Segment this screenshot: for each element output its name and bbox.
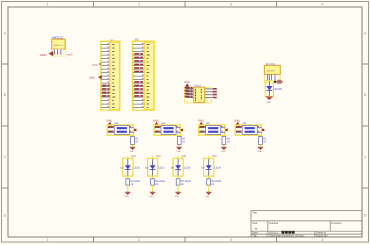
opto U6 left pin net labels <box>236 126 241 132</box>
LED D1 highlight box <box>265 81 273 97</box>
svg-text:GND: GND <box>177 150 182 153</box>
opto U4 body <box>161 126 176 135</box>
opto U6 pin number marks <box>241 126 260 132</box>
wire resistor R2 to ground <box>178 144 180 147</box>
opto U6 left pins <box>236 128 243 133</box>
wire resistor R5 to ground <box>127 185 129 192</box>
opto U4 left pin net labels <box>155 126 160 132</box>
wire resistor R6 to ground <box>152 185 154 192</box>
opto U3 pin number marks <box>113 126 132 132</box>
opto U5 right pins <box>221 128 225 133</box>
svg-text:D4: D4 <box>171 166 175 169</box>
resistor R7 <box>176 179 191 186</box>
switch K1 pins <box>268 74 275 81</box>
opto U5 left pin net labels <box>200 126 205 132</box>
opto U3 left pins <box>108 128 115 133</box>
driver U2 pins <box>186 89 212 98</box>
svg-text:3: 3 <box>230 3 232 7</box>
svg-text:GND: GND <box>40 53 46 57</box>
opto U4 pin number marks <box>159 126 178 132</box>
wire opto U6 to resistor <box>259 135 261 136</box>
net label at opto U5 output <box>226 129 228 131</box>
svg-text:4: 4 <box>322 3 324 7</box>
opto U4 right pins <box>176 128 180 133</box>
power port GND at opto U3 <box>106 119 112 124</box>
svg-text:VCC: VCC <box>92 64 98 67</box>
opto U4 left pins <box>155 128 162 133</box>
switch K1 pin field <box>266 74 277 80</box>
wire K1 to LED D1 <box>268 74 270 96</box>
svg-text:D2: D2 <box>120 166 124 169</box>
regulator U1 pin numbers <box>55 52 60 55</box>
svg-text:GND: GND <box>175 195 180 198</box>
power port GND at opto U6 <box>234 119 240 124</box>
svg-text:GND: GND <box>221 150 226 153</box>
switch K1 halo <box>264 74 280 83</box>
wire resistor R1 to ground <box>132 144 134 147</box>
svg-text:LED4: LED4 <box>214 166 221 169</box>
resistor R6 <box>151 179 166 186</box>
svg-text:1K: 1K <box>182 141 185 144</box>
power ground below R2 <box>176 147 182 153</box>
power ground at D1 <box>266 97 273 105</box>
wire loop around opto U4 <box>154 125 180 135</box>
connector P1 highlight outline <box>101 41 120 110</box>
power ground below R7 <box>175 192 181 198</box>
svg-text:+VCC: +VCC <box>66 54 73 57</box>
opto U3 left pin net labels <box>108 126 113 132</box>
connector P1 pin names <box>112 44 115 108</box>
wire resistor R4 to ground <box>259 144 261 147</box>
wire opto U3 to resistor <box>132 135 134 136</box>
svg-text:GND: GND <box>149 195 154 198</box>
wire loop around opto U5 <box>199 125 225 135</box>
resistor R3 <box>222 137 231 145</box>
svg-text:GND: GND <box>89 77 95 80</box>
connector P2 net labels <box>134 53 143 97</box>
power ground below R5 <box>125 192 131 198</box>
opto U6 body <box>242 126 257 135</box>
svg-text:GND: GND <box>153 119 159 122</box>
wire opto U5 to resistor <box>223 135 225 136</box>
svg-text:LED3: LED3 <box>184 166 191 169</box>
LED D2 highlight box <box>123 158 133 176</box>
wire into LED D5 <box>208 156 210 159</box>
svg-text:MX-05V: MX-05V <box>267 70 275 73</box>
LED D5 highlight box <box>204 158 214 176</box>
wire resistor R3 to ground <box>223 144 225 147</box>
svg-text:Title: Title <box>252 212 257 215</box>
connector P1 pins <box>101 45 110 108</box>
driver U2 body <box>194 87 205 102</box>
driver U2 right net labels <box>212 88 216 98</box>
wire resistor R8 to ground <box>208 185 210 192</box>
connector P1 pin field <box>102 42 110 110</box>
svg-text:1K: 1K <box>181 183 184 186</box>
LED D4 symbol <box>175 159 181 176</box>
svg-text:D3: D3 <box>145 166 149 169</box>
switch K1 body <box>264 65 280 74</box>
driver U2 left net labels <box>185 87 193 97</box>
svg-text:1K: 1K <box>227 141 230 144</box>
regulator U1 body <box>52 39 65 49</box>
junction dot <box>274 81 276 83</box>
resistor R2 <box>177 137 186 145</box>
svg-text:1K: 1K <box>155 183 158 186</box>
regulator U1 pin field <box>53 49 63 54</box>
power port GND at P1 <box>89 75 102 79</box>
LED D2 symbol <box>125 159 131 176</box>
svg-text:1K: 1K <box>135 141 138 144</box>
wire LED D5 to resistor <box>208 176 210 179</box>
opto U3 right pins <box>129 128 133 133</box>
connector P1 net labels <box>102 85 110 97</box>
power ground below R1 <box>130 147 136 153</box>
resistor R1 <box>131 137 140 145</box>
svg-text:D:\Users\adm\Desktop\x.SchDoc: D:\Users\adm\Desktop\x.SchDoc <box>267 235 306 238</box>
svg-text:Size: Size <box>252 222 258 225</box>
title block project name <box>282 231 295 234</box>
connector P2 highlight outline <box>133 41 154 110</box>
svg-text:GND: GND <box>130 150 135 153</box>
LED D4 highlight box <box>173 158 183 176</box>
title block <box>251 211 362 237</box>
wire LED D4 to resistor <box>177 176 179 179</box>
svg-text:GND: GND <box>206 195 211 198</box>
svg-text:A4: A4 <box>254 228 258 231</box>
svg-text:1K: 1K <box>211 183 214 186</box>
title block text <box>252 212 342 238</box>
svg-text:3: 3 <box>230 238 232 242</box>
svg-text:Drawn By:: Drawn By: <box>316 235 328 238</box>
svg-text:File:: File: <box>252 235 257 238</box>
svg-text:1K: 1K <box>263 141 266 144</box>
connector P2 pins <box>133 45 144 108</box>
regulator U1 highlight outline <box>52 39 66 56</box>
wire LED D3 to resistor <box>152 176 154 179</box>
resistor R5 <box>126 179 141 186</box>
resistor R8 <box>207 179 222 186</box>
svg-text:GND: GND <box>234 119 240 122</box>
svg-text:2: 2 <box>138 3 140 7</box>
opto U5 pin number marks <box>204 126 223 132</box>
svg-text:4: 4 <box>322 238 324 242</box>
power port VCC at P1 <box>92 63 101 67</box>
opto U3 body <box>114 126 129 135</box>
connector P2 pin numbers <box>142 43 143 107</box>
svg-text:GND: GND <box>125 195 130 198</box>
svg-text:2: 2 <box>138 238 140 242</box>
svg-text:1K: 1K <box>130 183 133 186</box>
svg-text:GND: GND <box>106 119 112 122</box>
wire K1 pin3 to port <box>275 81 277 83</box>
svg-text:1: 1 <box>47 238 49 242</box>
wire into LED D4 <box>177 156 179 159</box>
wire loop around opto U6 <box>235 125 261 135</box>
connector P1 pin numbers <box>108 43 109 107</box>
connector P2 pin names <box>147 44 150 108</box>
power port GND at U1 <box>40 51 53 57</box>
svg-text:LED2: LED2 <box>158 166 165 169</box>
wire opto U4 to resistor <box>178 135 180 136</box>
regulator U1 pins <box>54 49 61 54</box>
driver U2 right pin field <box>205 88 212 99</box>
wire into LED D2 <box>127 156 129 159</box>
connector P2 body <box>144 42 154 110</box>
power ground below R6 <box>149 192 155 198</box>
driver U2 highlight outline <box>184 88 211 103</box>
LED D5 symbol <box>206 159 212 176</box>
wire resistor R7 to ground <box>177 185 179 192</box>
svg-text:D5: D5 <box>201 166 205 169</box>
wire loop around opto U3 <box>107 125 133 135</box>
driver U2 halo <box>184 87 212 103</box>
LED D1 symbol <box>266 86 272 90</box>
power ground below R4 <box>258 147 264 153</box>
svg-text:AMS1117: AMS1117 <box>54 44 64 47</box>
svg-text:GND: GND <box>258 150 263 153</box>
power port GND at opto U5 <box>198 119 204 124</box>
svg-text:LED1: LED1 <box>133 166 140 169</box>
power port GND at U2 <box>184 81 190 87</box>
resistor R4 <box>259 137 268 145</box>
net label at opto U3 output <box>134 129 136 131</box>
net label at opto U6 output <box>262 129 264 131</box>
LED D3 highlight box <box>148 158 158 176</box>
connector P1 body <box>110 42 120 110</box>
power port GND at opto U4 <box>153 119 159 124</box>
signal port arrow <box>277 80 283 84</box>
svg-text:Number: Number <box>269 222 278 225</box>
svg-text:GND: GND <box>198 119 204 122</box>
wire into LED D3 <box>152 156 154 159</box>
power ground below R8 <box>206 192 212 198</box>
driver U2 left pin field <box>186 88 194 99</box>
opto U5 body <box>206 126 221 135</box>
switch K1 highlight outline <box>264 65 280 83</box>
LED D3 symbol <box>150 159 156 176</box>
svg-text:LED10: LED10 <box>273 87 282 91</box>
wire LED D2 to resistor <box>127 176 129 179</box>
opto U5 left pins <box>199 128 206 133</box>
net label at opto U4 output <box>181 129 183 131</box>
svg-text:GND: GND <box>266 101 271 104</box>
svg-text:Revision: Revision <box>331 222 342 225</box>
regulator U1 halo <box>51 49 65 57</box>
power ground below R3 <box>221 147 227 153</box>
connector P2 pin field <box>134 42 145 110</box>
opto U6 right pins <box>257 128 261 133</box>
svg-text:1: 1 <box>47 3 49 7</box>
